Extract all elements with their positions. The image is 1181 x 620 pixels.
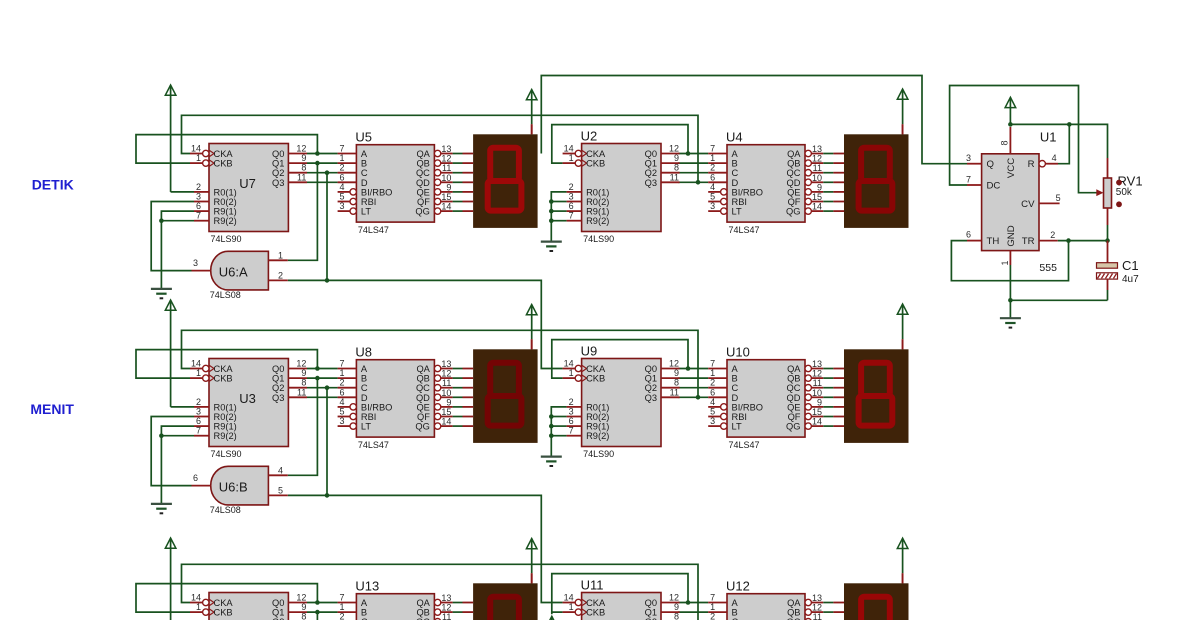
svg-text:R: R [1028, 159, 1035, 170]
svg-text:R9(1): R9(1) [586, 422, 609, 432]
svg-text:6: 6 [710, 387, 715, 397]
svg-text:U6:A: U6:A [219, 264, 248, 279]
svg-text:U5: U5 [355, 130, 372, 145]
svg-text:12: 12 [812, 154, 822, 164]
svg-text:12: 12 [669, 144, 679, 154]
svg-text:U6:B: U6:B [219, 479, 248, 494]
svg-text:6: 6 [710, 172, 715, 182]
svg-text:14: 14 [441, 417, 451, 427]
svg-text:Q1: Q1 [272, 159, 284, 169]
svg-text:1: 1 [196, 602, 201, 612]
svg-text:Q3: Q3 [272, 393, 284, 403]
svg-text:CKB: CKB [586, 159, 605, 169]
svg-text:R9(2): R9(2) [214, 216, 237, 226]
svg-text:13: 13 [441, 593, 451, 603]
potentiometer RV1 50k [1104, 158, 1143, 241]
7-segment display right [833, 573, 908, 620]
wire U1.DC to RV1 wiper [950, 86, 1097, 193]
wire U11.Q0 to U12.A [678, 602, 708, 604]
svg-text:TH: TH [987, 236, 1000, 247]
wire U8.QE to display [453, 406, 463, 408]
junction U2.Q3 tap [696, 180, 701, 185]
svg-text:9: 9 [446, 397, 451, 407]
svg-text:12: 12 [669, 593, 679, 603]
svg-text:Q1: Q1 [272, 608, 284, 618]
svg-text:9: 9 [817, 397, 822, 407]
svg-text:BI/RBO: BI/RBO [361, 187, 393, 197]
svg-text:DETIK: DETIK [32, 176, 74, 192]
svg-text:LT: LT [732, 422, 742, 432]
svg-text:1: 1 [339, 602, 344, 612]
decoder U8 74LS47 [338, 345, 453, 450]
svg-text:12: 12 [296, 359, 306, 369]
svg-text:B: B [732, 374, 738, 384]
svg-text:B: B [732, 159, 738, 169]
svg-text:13: 13 [812, 359, 822, 369]
wire U7.Q3 to U5.D [307, 181, 338, 183]
svg-text:555: 555 [1039, 262, 1057, 274]
wire U5.QE to display [453, 191, 463, 193]
svg-text:5: 5 [710, 192, 715, 202]
svg-text:4: 4 [278, 465, 283, 475]
ground right group [541, 457, 562, 466]
AND gate U6:B 74LS08 [192, 465, 288, 515]
wire U5.QD to display [453, 181, 463, 183]
svg-text:QB: QB [787, 159, 800, 169]
junction gate feed [325, 493, 330, 498]
decoder U4 74LS47 [708, 130, 823, 235]
wire U9.Q3 to U3.CKA (bus over top) [182, 330, 699, 397]
svg-text:QC: QC [416, 383, 430, 393]
svg-text:QF: QF [417, 197, 430, 207]
svg-text:QE: QE [787, 402, 800, 412]
svg-text:7: 7 [710, 593, 715, 603]
svg-text:R0(2): R0(2) [214, 412, 237, 422]
svg-text:QG: QG [415, 422, 429, 432]
wire U9.Q0 to U10.A [678, 368, 708, 370]
svg-text:RBI: RBI [361, 197, 377, 207]
wire U2.Q3 to U4.D [678, 181, 708, 183]
svg-text:5: 5 [278, 486, 283, 496]
svg-text:CKA: CKA [214, 364, 234, 374]
ground right group [541, 242, 562, 251]
decoder U10 74LS47 [708, 345, 823, 450]
svg-text:6: 6 [569, 416, 574, 426]
svg-text:11: 11 [442, 612, 451, 620]
wire U2.Q0 to U4.A [678, 153, 708, 155]
wire U8.QC to display [453, 387, 463, 389]
wire VCC rail to RV1 top [1008, 122, 1107, 158]
svg-text:Q3: Q3 [645, 393, 657, 403]
svg-text:GND: GND [1006, 225, 1017, 246]
counter ?? 74LS90 [190, 593, 307, 620]
svg-text:RBI: RBI [732, 412, 748, 422]
ground left group [151, 504, 172, 513]
counter U2 74LS90 [563, 129, 680, 245]
svg-text:4: 4 [710, 397, 715, 407]
svg-text:11: 11 [670, 387, 679, 397]
svg-text:BI/RBO: BI/RBO [361, 402, 393, 412]
svg-text:3: 3 [339, 201, 344, 211]
svg-text:7: 7 [569, 211, 574, 221]
counter U3 74LS90 [190, 359, 307, 460]
wire U3.Q2 drop [326, 388, 328, 496]
svg-text:3: 3 [569, 192, 574, 202]
svg-text:CKA: CKA [586, 364, 606, 374]
7-segment display left [463, 124, 538, 228]
svg-text:11: 11 [813, 163, 822, 173]
svg-text:RBI: RBI [732, 197, 748, 207]
wire U10.QB to display [823, 377, 833, 379]
svg-text:14: 14 [812, 417, 822, 427]
svg-text:12: 12 [812, 369, 822, 379]
svg-text:13: 13 [441, 144, 451, 154]
svg-text:Q2: Q2 [645, 168, 657, 178]
svg-text:D: D [732, 178, 739, 188]
svg-text:9: 9 [301, 602, 306, 612]
svg-text:74LS47: 74LS47 [729, 440, 760, 450]
junction U7.Q0 [315, 151, 320, 156]
7-segment display right [833, 124, 908, 228]
svg-text:1: 1 [569, 368, 574, 378]
svg-text:R0(1): R0(1) [586, 402, 609, 412]
svg-text:74LS08: 74LS08 [210, 505, 241, 515]
svg-text:3: 3 [196, 192, 201, 202]
svg-text:13: 13 [441, 359, 451, 369]
svg-text:6: 6 [339, 172, 344, 182]
svg-text:8: 8 [674, 378, 679, 388]
svg-text:QE: QE [787, 187, 800, 197]
svg-text:2: 2 [339, 378, 344, 388]
svg-text:QC: QC [416, 168, 430, 178]
ground left group [151, 289, 172, 298]
svg-text:3: 3 [710, 201, 715, 211]
power terminal left [165, 300, 176, 407]
svg-text:4: 4 [339, 182, 344, 192]
7-segment display left [463, 573, 538, 620]
svg-text:LT: LT [361, 422, 371, 432]
svg-text:1: 1 [339, 368, 344, 378]
svg-text:D: D [361, 178, 368, 188]
wire U13.QB to display [453, 611, 463, 613]
wire U3.Q2 to gate U6:B input 5 and next stage clock [288, 495, 563, 602]
svg-text:11: 11 [442, 378, 451, 388]
svg-text:2: 2 [1050, 230, 1055, 240]
wire U4.QG to display [823, 210, 833, 212]
svg-text:U2: U2 [581, 129, 598, 144]
wire U4.QF to display [823, 201, 833, 203]
svg-text:R0(1): R0(1) [214, 402, 237, 412]
svg-text:11: 11 [670, 172, 679, 182]
svg-text:7: 7 [196, 426, 201, 436]
junction gate feed [325, 278, 330, 283]
counter U11 74LS90 [563, 578, 680, 620]
svg-text:3: 3 [196, 407, 201, 417]
svg-text:Q0: Q0 [645, 598, 657, 608]
svg-text:3: 3 [193, 258, 198, 268]
svg-text:6: 6 [339, 387, 344, 397]
svg-text:1: 1 [710, 602, 715, 612]
svg-text:7: 7 [339, 359, 344, 369]
svg-text:50k: 50k [1116, 187, 1133, 198]
svg-text:LT: LT [361, 207, 371, 217]
wire U13.QA to display [453, 602, 463, 604]
svg-text:C: C [732, 168, 739, 178]
junction U9.Q3 tap [696, 395, 701, 400]
svg-text:2: 2 [339, 612, 344, 620]
svg-text:U13: U13 [355, 579, 379, 594]
decoder U13 74LS47 [338, 579, 453, 620]
svg-text:A: A [361, 364, 368, 374]
wire U5.QA to display [453, 153, 463, 155]
wire U5.QB to display [453, 162, 463, 164]
svg-text:U8: U8 [355, 345, 372, 360]
wire U3.Q2 to U8.C [307, 387, 338, 389]
svg-text:8: 8 [674, 163, 679, 173]
svg-text:U7: U7 [239, 176, 256, 191]
svg-text:MENIT: MENIT [30, 401, 74, 417]
svg-text:CKA: CKA [214, 598, 234, 608]
counter U7 74LS90 [190, 144, 307, 245]
svg-text:14: 14 [812, 202, 822, 212]
svg-text:14: 14 [191, 593, 201, 603]
svg-text:Q0: Q0 [272, 598, 284, 608]
svg-text:R9(2): R9(2) [586, 216, 609, 226]
svg-text:QB: QB [787, 608, 800, 618]
svg-text:10: 10 [812, 388, 822, 398]
RV1 wiper arrow head [1096, 189, 1103, 196]
svg-text:6: 6 [193, 473, 198, 483]
svg-text:C: C [361, 383, 368, 393]
row label MENIT [30, 401, 74, 417]
svg-text:74LS08: 74LS08 [210, 290, 241, 300]
svg-text:3: 3 [710, 416, 715, 426]
svg-text:QF: QF [788, 412, 801, 422]
svg-text:1: 1 [196, 153, 201, 163]
svg-text:Q2: Q2 [272, 383, 284, 393]
svg-text:U4: U4 [726, 130, 743, 145]
svg-text:13: 13 [812, 144, 822, 154]
svg-text:9: 9 [817, 182, 822, 192]
svg-text:9: 9 [301, 368, 306, 378]
svg-text:QE: QE [416, 402, 429, 412]
wire U12.QB to display [823, 611, 833, 613]
svg-text:2: 2 [569, 397, 574, 407]
wire U9.Q1 to U10.B [678, 377, 708, 379]
svg-text:RBI: RBI [361, 412, 377, 422]
svg-text:DC: DC [987, 181, 1001, 192]
svg-text:8: 8 [301, 378, 306, 388]
wire U1.TH to U1.TR [951, 238, 1070, 280]
7-segment display right [833, 339, 908, 443]
wire U7.Q0 to U5.A [307, 153, 338, 155]
svg-text:CKB: CKB [586, 608, 605, 618]
svg-text:U12: U12 [726, 579, 750, 594]
junction U7.Q2 [325, 170, 330, 175]
timer U1 555 [966, 127, 1061, 300]
counter U9 74LS90 [563, 344, 680, 460]
wire U1.GND to C1 bottom [1008, 298, 1107, 318]
svg-text:74LS47: 74LS47 [729, 225, 760, 235]
svg-text:2: 2 [569, 182, 574, 192]
junction U3.Q0 [315, 366, 320, 371]
svg-text:7: 7 [710, 144, 715, 154]
svg-text:Q: Q [987, 159, 994, 170]
svg-text:7: 7 [196, 211, 201, 221]
svg-text:1: 1 [278, 250, 283, 260]
wire U2.Q3 to U7.CKA (bus over top) [182, 115, 699, 182]
svg-text:12: 12 [296, 144, 306, 154]
svg-text:R0(2): R0(2) [214, 197, 237, 207]
wire U4.QB to display [823, 162, 833, 164]
svg-text:Q2: Q2 [645, 383, 657, 393]
wire U1.Q (555 output) to U2.CKA [541, 76, 967, 164]
wire U2.Q1 to U4.B [678, 162, 708, 164]
svg-text:9: 9 [446, 182, 451, 192]
svg-text:5: 5 [710, 407, 715, 417]
svg-text:QD: QD [787, 393, 801, 403]
wire U7.Q1 to gate U6:A input 1 [288, 163, 318, 260]
svg-text:CKA: CKA [214, 149, 234, 159]
svg-text:2: 2 [710, 163, 715, 173]
svg-text:5: 5 [1056, 193, 1061, 203]
svg-text:R0(1): R0(1) [586, 187, 609, 197]
svg-text:Q0: Q0 [645, 149, 657, 159]
svg-text:QA: QA [416, 364, 430, 374]
svg-text:CV: CV [1021, 199, 1035, 210]
svg-text:R0(1): R0(1) [214, 187, 237, 197]
svg-text:QE: QE [416, 187, 429, 197]
power terminal right display [897, 538, 908, 583]
svg-text:QC: QC [787, 168, 801, 178]
svg-text:R0(2): R0(2) [586, 412, 609, 422]
wire U3.Q0 to U3.CKB loop [136, 350, 317, 379]
wire U3.Q1 to gate U6:B input 4 [288, 378, 318, 475]
svg-text:QB: QB [416, 608, 429, 618]
wire U7.Q2 to gate U6:A input 2 and next stage clock [288, 280, 563, 368]
svg-text:74LS47: 74LS47 [358, 440, 389, 450]
svg-text:4: 4 [1052, 153, 1057, 163]
svg-text:10: 10 [441, 173, 451, 183]
wire U7.Q0 to U7.CKB loop [136, 135, 317, 164]
svg-text:12: 12 [812, 603, 822, 613]
svg-text:1: 1 [710, 153, 715, 163]
svg-text:74LS90: 74LS90 [211, 234, 242, 244]
svg-text:QB: QB [416, 159, 429, 169]
wire U9.Q2 to U10.C [678, 387, 708, 389]
power terminal mid display [526, 305, 537, 350]
svg-text:74LS47: 74LS47 [358, 225, 389, 235]
wire U7.R0(1) to VCC [171, 191, 194, 193]
wire U7.Q2 drop [326, 173, 328, 281]
svg-text:R9(1): R9(1) [214, 207, 237, 217]
svg-text:D: D [732, 393, 739, 403]
wire U2 reset pins to ground [549, 192, 567, 242]
power terminal mid display [526, 539, 537, 584]
wire U7.Q1 to U5.B [307, 162, 338, 164]
svg-text:R9(1): R9(1) [586, 207, 609, 217]
svg-text:2: 2 [196, 397, 201, 407]
wire U11.Q1 to U12.B [678, 611, 708, 613]
svg-text:QD: QD [416, 393, 430, 403]
svg-text:A: A [361, 149, 368, 159]
junction U9.Q0 [686, 366, 691, 371]
svg-text:7: 7 [569, 426, 574, 436]
wire U5.QF to display [453, 201, 463, 203]
svg-text:U9: U9 [581, 344, 598, 359]
svg-text:Q3: Q3 [272, 178, 284, 188]
capacitor C1 4u7 [1097, 241, 1140, 301]
svg-text:CKA: CKA [586, 598, 606, 608]
svg-text:14: 14 [441, 202, 451, 212]
svg-text:9: 9 [674, 602, 679, 612]
svg-text:12: 12 [441, 369, 451, 379]
wire U5.QC to display [453, 172, 463, 174]
junction ??.Q0 [315, 600, 320, 605]
svg-text:LT: LT [732, 207, 742, 217]
wire U10.QG to display [823, 425, 833, 427]
svg-text:8: 8 [1000, 140, 1010, 145]
svg-text:1: 1 [569, 153, 574, 163]
power terminal 555 [1005, 97, 1016, 124]
wire U11.Q3 to ??.CKA (bus over top) [182, 564, 699, 620]
wire U4.QD to display [823, 181, 833, 183]
svg-text:6: 6 [966, 230, 971, 240]
svg-text:QA: QA [787, 598, 801, 608]
wire gate U6:B output to U3.R0(2) [151, 417, 194, 486]
wire ??.Q0 to U13.A [307, 602, 338, 604]
svg-text:2: 2 [339, 163, 344, 173]
svg-text:R9(1): R9(1) [214, 422, 237, 432]
svg-text:CKB: CKB [214, 374, 233, 384]
svg-text:Q0: Q0 [272, 149, 284, 159]
svg-text:QG: QG [786, 422, 800, 432]
svg-text:1: 1 [196, 368, 201, 378]
svg-text:BI/RBO: BI/RBO [732, 402, 764, 412]
wire U3.Q0 to U8.A [307, 368, 338, 370]
wire U9.Q0 to U9.CKB loop [552, 340, 688, 379]
svg-text:15: 15 [812, 407, 822, 417]
svg-text:BI/RBO: BI/RBO [732, 187, 764, 197]
AND gate U6:A 74LS08 [192, 250, 288, 300]
svg-text:14: 14 [191, 359, 201, 369]
svg-text:B: B [361, 159, 367, 169]
power terminal left [165, 85, 176, 192]
power terminal right display [897, 304, 908, 349]
svg-text:5: 5 [339, 192, 344, 202]
wire U1.TR to RV1/C1 junction [1058, 238, 1110, 243]
svg-text:B: B [732, 608, 738, 618]
wire ??.Q1 drop [315, 610, 320, 620]
svg-text:1: 1 [569, 602, 574, 612]
wire U1.R to VCC rail [1058, 122, 1072, 164]
wire U7.Q2 to U5.C [307, 172, 338, 174]
svg-text:U11: U11 [581, 578, 604, 593]
svg-text:U1: U1 [1040, 129, 1057, 144]
svg-text:QA: QA [787, 364, 801, 374]
svg-text:A: A [732, 598, 739, 608]
svg-text:QG: QG [786, 207, 800, 217]
7-segment display left [463, 339, 538, 443]
svg-text:2: 2 [196, 182, 201, 192]
svg-text:QF: QF [417, 412, 430, 422]
svg-text:QA: QA [416, 149, 430, 159]
wire U8.QD to display [453, 396, 463, 398]
svg-text:6: 6 [196, 201, 201, 211]
svg-text:A: A [732, 149, 739, 159]
wire U10.QC to display [823, 387, 833, 389]
wire U4.QE to display [823, 191, 833, 193]
